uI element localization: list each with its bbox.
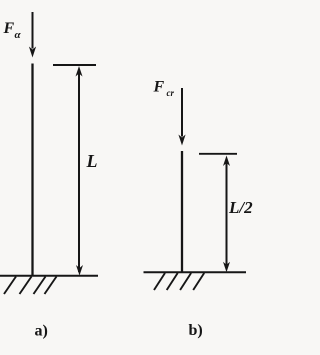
svg-text:L: L: [86, 151, 98, 171]
reference bar top (a): [53, 64, 96, 66]
reference bar top (b): [199, 153, 237, 155]
svg-text:α: α: [15, 29, 22, 41]
svg-text:b): b): [189, 322, 203, 339]
svg-text:F: F: [153, 79, 165, 96]
ground line (b): [144, 271, 247, 273]
dimension line L (a): [76, 66, 84, 276]
hatch marks ground (b): [154, 273, 204, 290]
ground line (a): [0, 275, 98, 277]
label F_cr (b): [153, 79, 175, 99]
svg-text:L/2: L/2: [228, 198, 253, 217]
force arrow Fcr (b): [178, 88, 185, 146]
force arrow Fcr (a): [29, 12, 36, 58]
svg-text:F: F: [3, 20, 15, 37]
hatch marks ground (a): [4, 277, 57, 295]
svg-text:cr: cr: [167, 88, 175, 98]
column b: [181, 151, 183, 272]
dimension line L/2 (b): [223, 156, 230, 273]
column a: [31, 64, 33, 276]
label F_alpha (a): [3, 20, 22, 41]
svg-text:a): a): [35, 323, 48, 340]
